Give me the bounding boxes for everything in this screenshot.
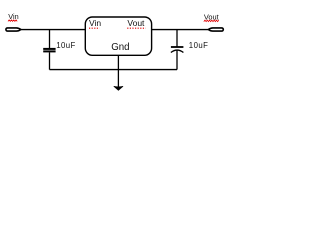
wire ground stem [117,55,119,87]
net label Vout [204,12,219,21]
svg-text:10uF: 10uF [189,41,209,50]
net label Vin [8,12,19,21]
wire top left [20,29,86,31]
svg-text:10uF: 10uF [56,41,76,50]
terminal pin J1 [6,28,21,31]
ground [114,86,123,90]
pin label Vin (U1) [89,18,101,28]
terminal pin J2 [208,28,223,31]
svg-text:Gnd: Gnd [111,42,129,53]
svg-text:Vout: Vout [127,18,145,28]
svg-text:Vin: Vin [89,18,101,28]
capacitor C2 [171,30,184,70]
regulator U1 [85,17,151,55]
pin label Vout (U1) [127,18,145,28]
wire top right [152,29,210,31]
wire bottom [50,69,178,71]
capacitor C1 [43,30,55,70]
